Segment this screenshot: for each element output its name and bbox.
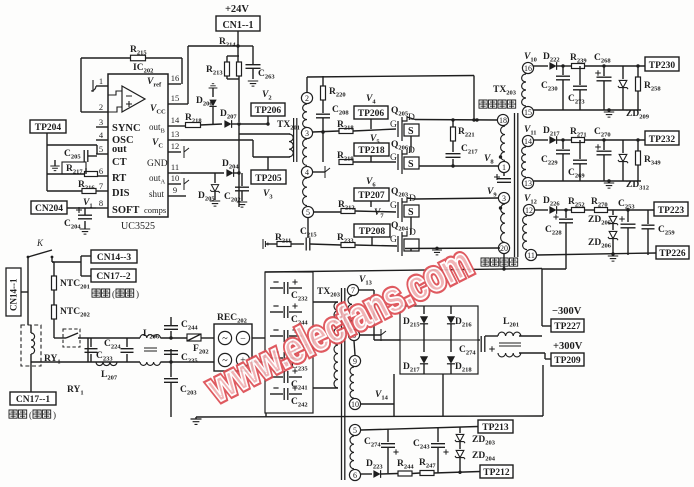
svg-text:12: 12 xyxy=(525,206,533,215)
svg-text:14: 14 xyxy=(171,115,180,125)
svg-text:2: 2 xyxy=(99,102,103,112)
svg-text:18: 18 xyxy=(499,116,507,125)
svg-text:8: 8 xyxy=(99,198,103,208)
svg-text:TP206: TP206 xyxy=(358,109,385,119)
svg-text:out: out xyxy=(112,144,127,155)
svg-text:G: G xyxy=(390,201,397,211)
svg-text:TP230: TP230 xyxy=(649,61,676,71)
svg-text:S: S xyxy=(408,126,414,137)
svg-text:CN1--1: CN1--1 xyxy=(222,20,253,31)
svg-text:6: 6 xyxy=(99,166,103,176)
svg-text:15: 15 xyxy=(171,93,180,103)
svg-text:TP218: TP218 xyxy=(358,146,385,156)
svg-text:D: D xyxy=(409,228,416,238)
svg-text:20: 20 xyxy=(500,244,508,253)
svg-text:2: 2 xyxy=(305,94,309,103)
svg-text:TP207: TP207 xyxy=(358,191,385,201)
svg-text:UC3525: UC3525 xyxy=(121,221,155,232)
svg-text:3: 3 xyxy=(99,117,103,127)
svg-text:): ) xyxy=(136,289,139,299)
svg-text:11: 11 xyxy=(171,162,179,172)
svg-text:TP206: TP206 xyxy=(255,106,282,116)
svg-text:DIS: DIS xyxy=(112,188,130,199)
svg-text:6: 6 xyxy=(353,471,357,480)
svg-text:S: S xyxy=(408,159,414,170)
svg-text:TP213: TP213 xyxy=(482,423,509,433)
svg-text:13: 13 xyxy=(524,179,532,188)
svg-text:−300V: −300V xyxy=(552,306,582,317)
svg-text:G: G xyxy=(390,235,397,245)
svg-text:SOFT: SOFT xyxy=(112,205,139,216)
svg-text:TP232: TP232 xyxy=(649,135,676,145)
svg-text:−: − xyxy=(240,333,246,344)
svg-text:RT: RT xyxy=(112,173,126,184)
svg-text:G: G xyxy=(390,120,397,130)
svg-text:1: 1 xyxy=(99,76,103,86)
svg-text:TP223: TP223 xyxy=(658,206,685,216)
svg-text:5: 5 xyxy=(99,144,103,154)
svg-text:5: 5 xyxy=(306,208,310,217)
svg-text:16: 16 xyxy=(171,73,180,83)
svg-text:S: S xyxy=(408,207,414,218)
svg-text:+24V: +24V xyxy=(225,4,249,15)
svg-text:14: 14 xyxy=(524,137,532,146)
svg-text:10: 10 xyxy=(351,400,359,409)
svg-text:SYNC: SYNC xyxy=(112,123,141,134)
svg-text:TP212: TP212 xyxy=(483,468,510,478)
svg-text:15: 15 xyxy=(524,108,532,117)
svg-text:CN14--3: CN14--3 xyxy=(97,253,132,263)
svg-text:): ) xyxy=(53,410,56,420)
svg-text:TP208: TP208 xyxy=(359,227,386,237)
svg-text:13: 13 xyxy=(171,129,180,139)
svg-text:TP226: TP226 xyxy=(659,249,686,259)
svg-text:CT: CT xyxy=(112,157,127,168)
svg-text:5: 5 xyxy=(353,426,357,435)
svg-text:TP209: TP209 xyxy=(554,356,581,366)
svg-text:11: 11 xyxy=(527,251,535,260)
svg-text:+300V: +300V xyxy=(553,341,583,352)
svg-text:TP205: TP205 xyxy=(255,174,282,184)
svg-text:CN17--1: CN17--1 xyxy=(16,395,51,405)
svg-text:TP204: TP204 xyxy=(35,123,62,133)
svg-text:TP227: TP227 xyxy=(554,322,581,332)
svg-text:~: ~ xyxy=(222,333,228,344)
svg-text:(: ( xyxy=(29,410,32,420)
svg-text:4: 4 xyxy=(305,168,309,177)
svg-text:3: 3 xyxy=(502,194,506,203)
svg-text:16: 16 xyxy=(524,64,532,73)
svg-text:GND: GND xyxy=(147,159,168,169)
svg-text:12: 12 xyxy=(171,141,180,151)
svg-text:comps: comps xyxy=(144,205,166,215)
svg-text:1: 1 xyxy=(502,163,506,172)
svg-text:9: 9 xyxy=(353,357,357,366)
svg-text:3: 3 xyxy=(305,129,309,138)
svg-text:9: 9 xyxy=(173,185,177,195)
svg-text:CN204: CN204 xyxy=(35,204,63,214)
svg-text:shut: shut xyxy=(149,189,165,199)
svg-text:7: 7 xyxy=(99,181,103,191)
svg-text:CN14--1: CN14--1 xyxy=(9,278,19,311)
svg-text:10: 10 xyxy=(171,173,180,183)
svg-text:G: G xyxy=(390,153,397,163)
svg-text:(: ( xyxy=(112,289,115,299)
svg-text:CN17--2: CN17--2 xyxy=(96,272,131,282)
svg-text:K: K xyxy=(36,238,44,248)
